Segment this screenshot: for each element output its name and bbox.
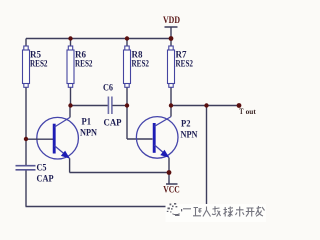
junction VCC [167,170,172,175]
svg-text:RES2: RES2 [75,59,93,69]
transistor Q P1 [26,106,97,173]
wire C6 to node2 [112,105,127,107]
wire P2 base link [127,138,153,140]
watermark text [183,206,265,217]
capacitor C6 [103,83,122,128]
watermark background box [166,204,267,222]
resistor R6 [67,46,93,87]
svg-text:NPN: NPN [181,130,198,140]
wire C5 top [25,139,27,165]
wire R6 column [70,39,72,106]
svg-text:CAP: CAP [104,118,122,128]
junction base P1 [24,137,28,141]
svg-text:P1: P1 [82,117,92,127]
wire bottom rail [26,206,207,208]
junction right vertical [204,103,208,107]
svg-text:RES2: RES2 [132,59,150,69]
wire emitter rail [70,172,170,174]
junction node3 collector P2 [169,103,173,107]
resistor R7 [168,46,194,87]
wire node1 R6 to C6 [71,105,108,107]
svg-text:out: out [246,108,257,116]
wire R7 column [170,39,172,106]
watermark logo [167,203,182,216]
power VCC [163,173,180,196]
svg-text:RES2: RES2 [176,59,194,69]
junction node2 C6 R8 [125,103,129,107]
junction top rail VDD [169,36,174,41]
svg-text:VCC: VCC [163,186,180,196]
svg-text:RES2: RES2 [30,59,48,69]
svg-text:C6: C6 [103,83,113,93]
node T out terminal label [239,106,256,116]
wire top rail VDD [26,38,171,40]
svg-text:C5: C5 [37,163,47,173]
wire R5 column [25,39,27,140]
svg-text:VDD: VDD [163,16,180,26]
junction top rail R6 [68,36,72,40]
svg-text:NPN: NPN [80,128,97,138]
wire right vertical [206,106,208,207]
wire C5 bottom [25,171,27,207]
junction T out [237,103,242,108]
junction top rail R8 [125,36,129,40]
transistor Q P2 [136,106,198,173]
svg-text:CAP: CAP [37,174,54,184]
resistor R8 [124,46,150,87]
svg-text:P2: P2 [181,119,191,129]
wire node3 R7 to Tout [171,105,239,107]
wire R8 column [126,39,128,140]
power VDD [163,16,180,39]
capacitor C5 [16,163,54,184]
junction node1 collector P1 [68,103,72,107]
resistor R5 [23,46,48,87]
